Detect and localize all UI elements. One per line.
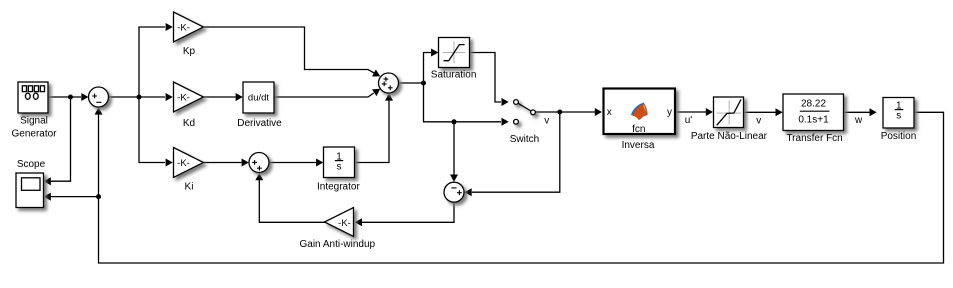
block Signal Generator bbox=[18, 82, 48, 113]
junction J6 scope tap on feedback bbox=[96, 194, 101, 199]
gain Ki bbox=[174, 148, 204, 178]
block Saturation bbox=[439, 38, 470, 68]
wire Transfer Fcn to Position bbox=[844, 111, 870, 113]
svg-text:-K-: -K- bbox=[177, 92, 190, 103]
svg-text:Gain Anti-windup: Gain Anti-windup bbox=[299, 239, 375, 250]
junction J1 on SigGen wire bbox=[68, 95, 73, 100]
block Integrator bbox=[324, 147, 355, 178]
wire Inversa to Parte Nao-Linear bbox=[676, 111, 706, 113]
svg-text:0.1s+1: 0.1s+1 bbox=[798, 114, 829, 125]
svg-text:du/dt: du/dt bbox=[248, 93, 269, 104]
wire J2 up to Kp bbox=[139, 27, 165, 97]
svg-text:w: w bbox=[854, 115, 863, 126]
wire Derivative to Sum2 lower-left port bbox=[275, 93, 374, 97]
wire Switch output to Inversa bbox=[536, 111, 596, 113]
svg-text:-K-: -K- bbox=[177, 158, 190, 169]
svg-text:Ki: Ki bbox=[185, 182, 194, 193]
sum IntSum bbox=[249, 153, 269, 173]
junction J3 on switch output bbox=[557, 110, 562, 115]
wire J2 down to Ki bbox=[139, 97, 165, 163]
icon MATLAB logo bbox=[631, 103, 648, 120]
svg-text:Transfer Fcn: Transfer Fcn bbox=[786, 133, 842, 144]
svg-text:-K-: -K- bbox=[338, 218, 351, 229]
wire Signal Generator to Sum1 bbox=[48, 96, 81, 98]
wire Position feedback to Sum1 bottom port bbox=[99, 112, 944, 263]
wire Gain Anti-windup to IntSum bottom port bbox=[259, 180, 324, 222]
wire Sum2 output to junction bbox=[399, 82, 424, 84]
wire J6 to Scope input 2 bbox=[50, 196, 99, 198]
junction J2 branch point bbox=[137, 95, 142, 100]
svg-text:Signal: Signal bbox=[20, 115, 48, 126]
block Scope bbox=[16, 173, 44, 208]
wire J3 down to AWSum right port bbox=[472, 112, 560, 192]
wire Sum1 to branch J2 and Kd bbox=[109, 96, 166, 98]
svg-text:Generator: Generator bbox=[11, 129, 57, 140]
svg-text:Derivative: Derivative bbox=[237, 118, 282, 129]
block Transfer Fcn bbox=[783, 94, 844, 131]
svg-text:Kp: Kp bbox=[183, 46, 196, 57]
junction J5 after Sum2 bbox=[421, 81, 426, 86]
wire J5 down to Switch bottom input bbox=[424, 83, 502, 122]
svg-text:s: s bbox=[337, 161, 342, 172]
svg-text:v: v bbox=[756, 116, 761, 127]
svg-text:28.22: 28.22 bbox=[801, 98, 826, 109]
block Inversa (MATLAB Fcn) bbox=[604, 89, 676, 135]
sum Sum1 bbox=[89, 87, 109, 107]
svg-text:v: v bbox=[544, 116, 549, 127]
block Derivative bbox=[243, 82, 274, 113]
wire IntSum to Integrator bbox=[269, 162, 316, 164]
svg-text:y: y bbox=[667, 107, 672, 118]
sum Sum2 bbox=[379, 73, 399, 93]
wire Saturation to Switch top input bbox=[470, 53, 501, 103]
block Position bbox=[883, 98, 914, 129]
svg-text:u': u' bbox=[685, 115, 693, 126]
svg-text:x: x bbox=[607, 107, 612, 118]
svg-text:Saturation: Saturation bbox=[431, 70, 477, 81]
wire J5 up to Saturation bbox=[424, 53, 432, 84]
wire Kd to Derivative bbox=[204, 96, 236, 98]
gain Kp bbox=[174, 12, 204, 42]
svg-text:Parte Não-Linear: Parte Não-Linear bbox=[691, 131, 768, 142]
wire Parte Nao-Linear to Transfer Fcn bbox=[744, 111, 776, 113]
svg-text:s: s bbox=[896, 110, 901, 121]
wire Kp to Sum2 upper-left port bbox=[204, 27, 375, 73]
svg-text:Kd: Kd bbox=[183, 118, 195, 129]
wire Ki to IntSum bbox=[204, 162, 242, 164]
wire AWSum output to Gain Anti-windup bbox=[362, 202, 454, 222]
block Parte Nao-Linear bbox=[714, 97, 744, 128]
junction J4 on switch bottom wire bbox=[452, 119, 457, 124]
wire J4 down to AWSum top port bbox=[453, 122, 455, 175]
svg-text:fcn: fcn bbox=[632, 124, 645, 135]
svg-text:Integrator: Integrator bbox=[317, 181, 360, 192]
svg-text:-K-: -K- bbox=[177, 22, 190, 33]
switch Switch bbox=[514, 100, 536, 125]
sum AWSum bbox=[444, 182, 464, 202]
svg-text:Switch: Switch bbox=[510, 134, 539, 145]
svg-text:Position: Position bbox=[881, 131, 917, 142]
svg-text:Scope: Scope bbox=[17, 159, 46, 170]
gain Kd bbox=[174, 82, 204, 112]
wire Integrator to Sum2 bottom port bbox=[355, 101, 390, 163]
wire J1 down to Scope input 1 bbox=[50, 97, 71, 181]
svg-text:Inversa: Inversa bbox=[622, 140, 655, 151]
gain Gain Anti-windup bbox=[325, 208, 354, 237]
